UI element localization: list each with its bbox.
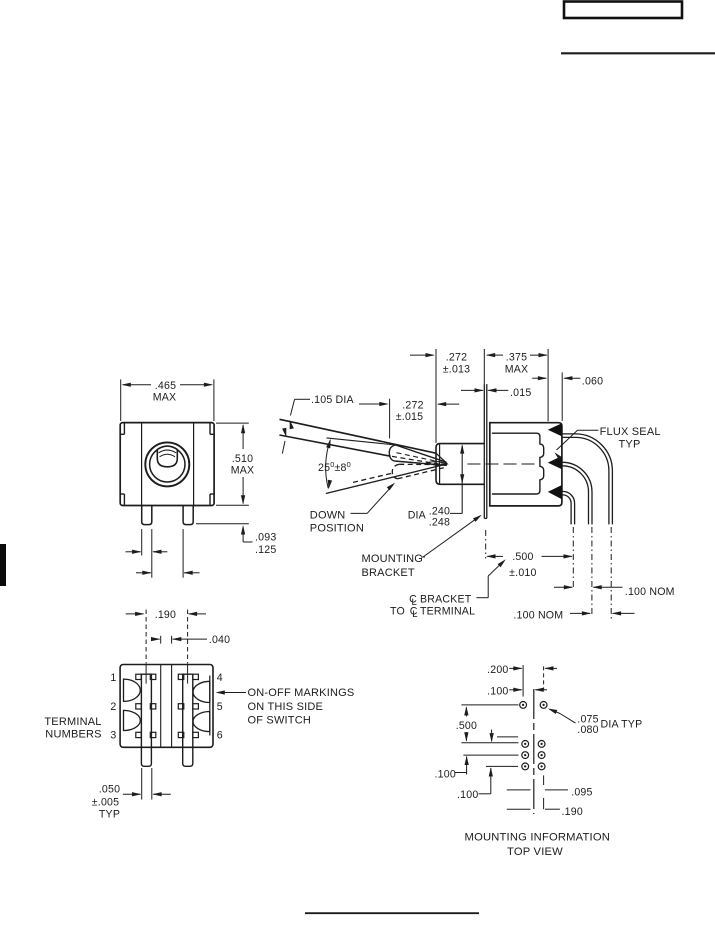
front view plate line left (141, 423, 143, 506)
svg-text:.240: .240 (429, 505, 450, 517)
svg-text:ON THIS SIDE: ON THIS SIDE (248, 701, 324, 713)
mounting hole row 2 (522, 752, 545, 759)
left margin black tab (0, 544, 6, 586)
label .075 .080 DIA TYP with leader (548, 709, 642, 737)
svg-text:2: 2 (110, 701, 116, 713)
terminal square row 1 (136, 674, 199, 679)
svg-text:.050: .050 (99, 784, 120, 796)
mounting view vertical centerline (533, 689, 535, 814)
terminal number 6 (217, 730, 223, 742)
dim .272 +-.013 (410, 352, 470, 376)
mounting hole top-left (520, 702, 527, 709)
switch body side view (490, 423, 562, 506)
bottom view body (120, 665, 213, 748)
terminal wire 2 middle (562, 462, 592, 524)
terminal number 4 (217, 672, 223, 684)
front view outer body (120, 423, 214, 506)
front view right leg (183, 506, 193, 525)
flux seal triangle top (548, 423, 562, 436)
svg-text:6: 6 (217, 730, 223, 742)
svg-text:BRACKET: BRACKET (420, 594, 472, 606)
body cover seam inner line (492, 433, 544, 494)
front view corner slot top-left (121, 423, 125, 434)
svg-text:DIA: DIA (408, 510, 427, 522)
label DOWN POSITION with leader (310, 483, 395, 535)
svg-text:MAX: MAX (231, 465, 255, 477)
svg-text:.375: .375 (506, 352, 527, 364)
bushing horizontal centerline (424, 463, 539, 465)
svg-text:.510: .510 (232, 453, 253, 465)
bottom view D lobe right lower (193, 712, 210, 732)
svg-text:.100: .100 (457, 789, 478, 801)
label MOUNTING BRACKET with leader (362, 515, 482, 579)
dim .100 NOM right (554, 585, 675, 598)
front view corner slot bottom-left (121, 494, 125, 505)
svg-text:±.013: ±.013 (443, 363, 470, 375)
dim .095 (507, 775, 593, 798)
svg-text:.272: .272 (446, 352, 467, 364)
svg-text:MAX: MAX (505, 363, 529, 375)
flux seal triangle middle (548, 456, 562, 469)
terminal number 2 (110, 701, 116, 713)
bracket centerline dash (485, 530, 487, 559)
svg-text:TERMINAL: TERMINAL (44, 716, 101, 728)
mounting hole top-right (540, 702, 547, 709)
dim .100 lower (457, 767, 493, 801)
svg-text:MOUNTING INFORMATION: MOUNTING INFORMATION (465, 831, 611, 843)
svg-text:TOP VIEW: TOP VIEW (507, 846, 563, 858)
svg-text:.100 NOM: .100 NOM (625, 586, 675, 598)
svg-text:TO: TO (390, 606, 405, 618)
mounting view ext line left hole (522, 665, 524, 697)
bushing (436, 444, 485, 485)
label MOUNTING INFORMATION (465, 831, 611, 843)
svg-text:.100 NOM: .100 NOM (513, 609, 563, 621)
label TERMINAL NUMBERS (44, 716, 101, 741)
svg-text:POSITION: POSITION (310, 522, 364, 534)
svg-text:±.015: ±.015 (396, 411, 423, 423)
front view bushing inner circle (150, 447, 185, 482)
dim .465 MAX (121, 379, 214, 421)
svg-text:250±80: 250±80 (318, 460, 351, 474)
svg-text:OF SWITCH: OF SWITCH (248, 715, 312, 727)
toggle lever down position phantom (352, 464, 447, 482)
svg-text:.093: .093 (255, 531, 276, 543)
dim .190 terminal pitch (126, 609, 206, 663)
svg-text:.105 DIA: .105 DIA (311, 394, 355, 406)
ext line bushing face (435, 349, 437, 443)
bottom view D lobe right upper (193, 681, 210, 702)
dim .190 mounting (507, 798, 583, 818)
svg-text:±.005: ±.005 (92, 797, 119, 809)
svg-text:TYP: TYP (99, 808, 120, 820)
bottom view D lobe left lower (124, 710, 141, 730)
svg-text:FLUX SEAL: FLUX SEAL (600, 426, 661, 438)
ext line body right (547, 349, 549, 421)
front view bushing outer circle (145, 442, 189, 486)
svg-text:.190: .190 (155, 609, 176, 621)
down position flank line (326, 465, 443, 494)
dim .500 +-.010 (486, 551, 573, 579)
svg-text:.060: .060 (582, 376, 603, 388)
label FLUX SEAL TYP with leader (554, 426, 660, 461)
svg-text:4: 4 (217, 672, 223, 684)
svg-text:.095: .095 (571, 787, 592, 799)
svg-text:DOWN: DOWN (310, 510, 346, 522)
svg-text:.500: .500 (512, 551, 533, 563)
dim .050 TYP (92, 768, 171, 820)
footer rule line (305, 912, 479, 914)
dim arrows leg width (126, 529, 168, 578)
terminal centerline dashes (573, 527, 611, 619)
terminal number 3 (110, 730, 116, 742)
svg-text:DIA TYP: DIA TYP (601, 718, 643, 730)
dim .375 MAX (486, 352, 548, 376)
front view corner slot bottom-right (210, 494, 214, 505)
mounting hole row 3 (522, 763, 545, 770)
bottom view left leg bar (141, 674, 151, 766)
terminal wire 1 top (562, 434, 613, 525)
svg-text:.080: .080 (577, 724, 598, 736)
label CL BRACKET TO CL TERMINAL with leader (390, 559, 506, 620)
svg-text:ON-OFF MARKINGS: ON-OFF MARKINGS (248, 687, 355, 699)
ext line seal plate right (561, 372, 563, 421)
svg-text:.125: .125 (255, 544, 276, 556)
terminal square row 3 (136, 732, 199, 737)
dim DIA .240 .248 with leader (408, 444, 465, 528)
label .105 DIA with leader (282, 394, 354, 454)
dim .093 .125 leg length (196, 524, 276, 556)
svg-text:.200: .200 (487, 664, 508, 676)
label TOP VIEW (507, 846, 563, 858)
terminal wire 3 bottom (562, 491, 575, 524)
bottom view right leg bar (183, 674, 193, 766)
svg-text:5: 5 (217, 701, 223, 713)
front view toggle stem (157, 446, 177, 467)
svg-text:3: 3 (110, 730, 116, 742)
bottom view center lines (146, 665, 188, 748)
dim .510 MAX (216, 423, 254, 505)
header box (empty form field) (564, 2, 682, 19)
front view corner slot top-right (210, 423, 214, 434)
svg-text:L: L (412, 609, 417, 620)
dim .060 (532, 376, 603, 388)
dim .100 between rows arrows (435, 730, 519, 781)
terminal number 1 (110, 672, 116, 684)
svg-text:.100: .100 (487, 685, 508, 697)
toggle lever up position (279, 419, 447, 464)
mounting hole row 1 (522, 741, 545, 748)
ext line bracket top (483, 349, 485, 384)
svg-text:.248: .248 (429, 517, 450, 529)
svg-text:.190: .190 (562, 806, 583, 818)
svg-text:MOUNTING: MOUNTING (362, 553, 423, 565)
svg-text:±.010: ±.010 (509, 567, 536, 579)
dim .200 (487, 664, 557, 676)
svg-text:.015: .015 (510, 387, 531, 399)
toggle lever mid stub with cap (327, 438, 447, 466)
label ON-OFF MARKINGS with arrow (216, 687, 355, 727)
dim .100 top (487, 685, 547, 697)
svg-text:.500: .500 (456, 720, 477, 732)
svg-text:TYP: TYP (619, 438, 641, 450)
svg-text:.272: .272 (402, 400, 423, 412)
mounting bracket plate (484, 384, 487, 518)
dim .272 +-.015 lever length (359, 400, 459, 423)
svg-text:1: 1 (110, 672, 116, 684)
svg-text:BRACKET: BRACKET (362, 567, 415, 579)
lever pivot lens (428, 462, 448, 466)
flux seal triangle bottom (548, 485, 562, 499)
front view plate line right (193, 423, 195, 506)
angle dim 25 +-8 (318, 439, 351, 489)
svg-text:TERMINAL: TERMINAL (420, 606, 475, 618)
ext line lever tip (389, 399, 391, 439)
svg-text:NUMBERS: NUMBERS (45, 728, 101, 740)
bottom view D lobe left upper (124, 679, 141, 701)
svg-text:.040: .040 (209, 634, 230, 646)
mounting view ext line right hole dashed (543, 666, 545, 690)
dim arrows leg span (136, 529, 200, 578)
svg-text:MAX: MAX (153, 392, 177, 404)
front view left leg (142, 506, 152, 525)
dim .500 mounting (456, 705, 519, 743)
dim .100 NOM left (513, 609, 634, 621)
svg-text:.100: .100 (435, 769, 456, 781)
dim .040 (151, 634, 230, 646)
bottom view right marking plate line (209, 676, 211, 736)
terminal number 5 (217, 701, 223, 713)
dim .015 bracket thickness (461, 387, 531, 399)
svg-text:.465: .465 (155, 380, 176, 392)
header rule line (561, 52, 715, 54)
terminal square row 2 (136, 704, 199, 709)
